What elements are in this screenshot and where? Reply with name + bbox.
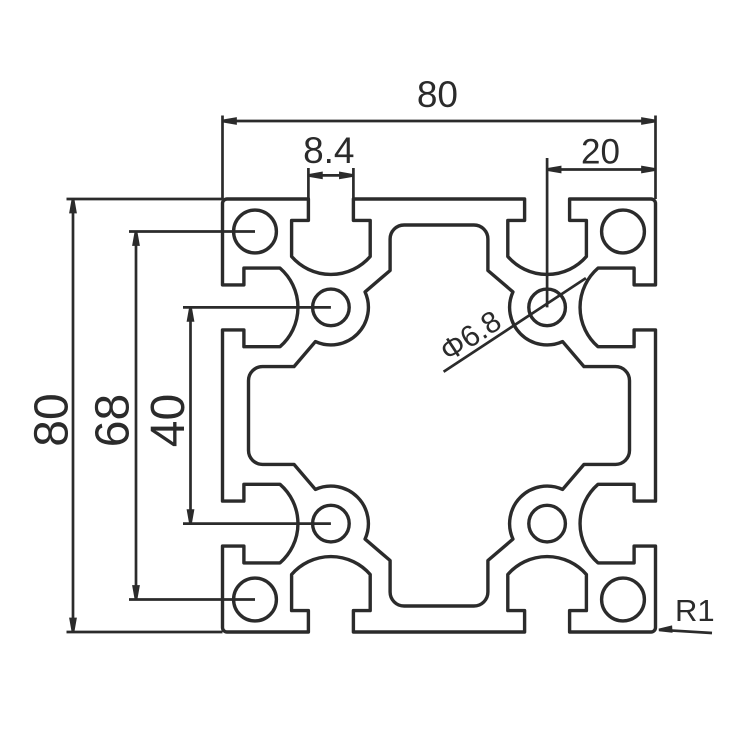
corner hole top-left bbox=[234, 210, 277, 253]
svg-text:R1: R1 bbox=[675, 593, 715, 628]
dimension line 20 bbox=[547, 168, 655, 171]
extension line 40 bottom bbox=[183, 522, 331, 525]
central cavity with 4 domes and 4 boss arcs bbox=[249, 225, 630, 606]
extension line 68 top (to corner hole center) bbox=[129, 230, 255, 233]
svg-text:68: 68 bbox=[87, 394, 140, 447]
inner core hole top-right (phi 6.8) bbox=[529, 289, 566, 326]
svg-text:80: 80 bbox=[417, 74, 458, 115]
corner hole top-right bbox=[602, 210, 645, 253]
leader line R1 with arrow bbox=[660, 630, 712, 633]
profile outer contour with 8 T-slots bbox=[223, 199, 656, 632]
svg-text:40: 40 bbox=[142, 394, 195, 447]
extension line left-bottom (80 left) bbox=[67, 631, 223, 634]
inner core hole bottom-left (phi 6.8) bbox=[313, 505, 350, 542]
extension line top-right (80 top / 20) bbox=[654, 116, 657, 200]
dimension line 80 top bbox=[223, 120, 656, 123]
svg-text:80: 80 bbox=[26, 393, 79, 446]
inner core hole bottom-right (phi 6.8) bbox=[529, 505, 566, 542]
extension line 40 top (to inner hole center) bbox=[183, 306, 331, 309]
dimension line 40 bbox=[189, 307, 192, 523]
extension line 68 bottom bbox=[129, 598, 255, 601]
leader line phi 6.8 bbox=[444, 278, 586, 372]
dimension line 8.4 bbox=[308, 174, 353, 177]
extension line top-left (80 top) bbox=[221, 116, 224, 200]
extension lines 8.4 slot bbox=[307, 168, 310, 199]
corner hole bottom-right bbox=[602, 578, 645, 621]
extension line left-top (80 left) bbox=[67, 198, 223, 201]
svg-text:8.4: 8.4 bbox=[303, 130, 354, 171]
dimension line 80 left bbox=[72, 199, 75, 632]
corner hole bottom-left bbox=[234, 578, 277, 621]
inner core hole top-left (phi 6.8) bbox=[313, 289, 350, 326]
dimension line 68 bbox=[135, 232, 138, 600]
svg-text:20: 20 bbox=[581, 133, 620, 172]
extension line 20 (through slot to hole center) bbox=[546, 158, 549, 307]
